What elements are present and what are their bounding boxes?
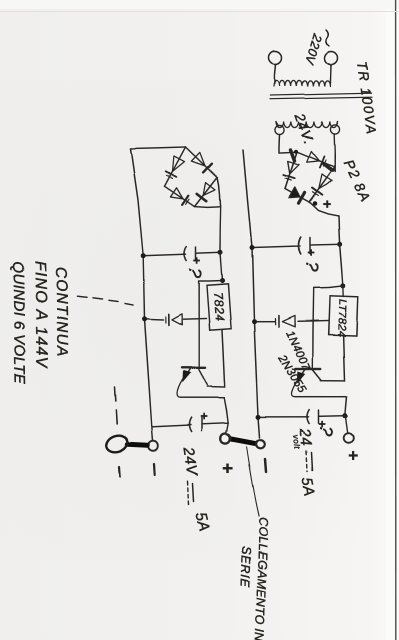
wire secondary lead to bottom terminal	[276, 122, 279, 127]
wire module 2 filter cap upper	[197, 251, 221, 254]
wire plus rail from regulator U1 to collector	[344, 336, 345, 382]
wire emitter rail up	[295, 396, 346, 398]
bridge B2 diamond edge S-E	[165, 186, 195, 206]
wire module 2 minus rail	[131, 149, 154, 442]
transistor Q1 emitter stroke	[298, 369, 306, 380]
jumper thick series link	[229, 439, 261, 445]
wire dashed continuation to next module	[115, 387, 118, 429]
wire module 2 plus rail segment 1	[219, 206, 222, 253]
wire minus rail module 1	[243, 150, 260, 438]
wire ground pin of U1 down	[298, 320, 329, 323]
diode D2 bridge P2 (N-E edge)	[319, 174, 332, 189]
node diode D10 minus rail junction	[142, 316, 147, 321]
wire bridge plus elbow	[309, 202, 339, 216]
svg-text:7824: 7824	[211, 291, 227, 322]
svg-text:+: +	[190, 257, 204, 265]
transistor Q1 emitter arrowhead	[297, 372, 304, 382]
bridge B2 diamond edge N-E	[195, 178, 218, 207]
wire base feed to Q1	[312, 288, 315, 368]
wire module 2 emitter rail up	[181, 397, 225, 399]
regulator U2 7824 box	[206, 283, 231, 330]
wire secondary lead to top terminal	[337, 122, 338, 126]
label DC symbol module 2 dashed	[188, 481, 189, 504]
capacitor C3 module 2 filter (plates)	[195, 247, 197, 260]
wire plus rail to regulator tap node	[340, 244, 343, 286]
svg-text:+: +	[319, 200, 335, 209]
svg-text:+: +	[218, 463, 238, 474]
svg-text:+: +	[304, 249, 318, 257]
diode D6 bridge B2 (W-N edge, apex to N)	[192, 152, 206, 166]
terminal output + module 1	[343, 433, 353, 443]
wire output plus rail	[345, 397, 347, 416]
terminal minus eyelet module 1	[256, 440, 265, 449]
wire dashed continuation from minus rail	[125, 304, 133, 306]
wire plus rail into regulator U1	[342, 286, 344, 297]
transformer TR core line 1	[270, 93, 372, 95]
wire output cap lower	[259, 416, 309, 418]
node output cap minus junction	[256, 414, 261, 419]
wire module 2 collector up	[207, 386, 225, 389]
svg-text:+: +	[197, 413, 211, 421]
capacitor C2 output (plates)	[318, 410, 320, 423]
wire module 2 base feed	[198, 281, 200, 367]
wire bridge B2 top corner to plus rail	[218, 178, 221, 206]
wire module 2 U2 ground pin down	[183, 318, 206, 321]
node diode D5 minus rail junction	[252, 319, 257, 324]
diode D10 module 2 (pointing to minus rail)	[171, 314, 181, 325]
paper crease line across top	[0, 11, 399, 13]
diode D7 bridge B2 (N-E edge)	[204, 183, 216, 196]
wire AC lead from secondary top terminal to bridge P2	[333, 134, 336, 172]
transformer TR secondary terminal circle (top)	[330, 125, 339, 134]
label DC symbol module 1 dashed	[306, 451, 307, 471]
transistor Q2 emitter stroke	[183, 368, 191, 379]
wire emitter Q1 hook	[291, 380, 297, 397]
svg-text:QUINDI 6 VOLTE: QUINDI 6 VOLTE	[9, 261, 28, 385]
jumper thick stub to external minus	[128, 445, 149, 446]
svg-text:5A: 5A	[298, 476, 318, 498]
wire module 2 emitter hook	[177, 379, 183, 398]
diode D9 bridge B2 (S-E edge)	[171, 188, 184, 199]
transistor Q2 collector stroke	[198, 368, 207, 385]
terminal minus module 2	[149, 441, 159, 451]
transformer TR primary terminal circle (220V left lead)	[269, 52, 282, 65]
terminal external minus ellipse	[104, 433, 130, 455]
node bridge P2 S-corner ink blob	[312, 201, 317, 206]
wire filter cap connection upper	[311, 243, 340, 246]
diode D4 bridge P2 (S-E edge, filled)	[289, 187, 300, 198]
wire output cap upper	[319, 415, 345, 418]
wire primary lead 1	[274, 65, 275, 85]
wire primary lead 2	[329, 65, 332, 85]
node module 2 filter cap minus junction	[141, 253, 146, 258]
diode D1 bridge P2 (W-N edge, apex to N, thick corner bar)	[307, 151, 320, 162]
wire filter cap connection lower	[253, 246, 301, 248]
wire module 2 output cap lower	[152, 425, 191, 427]
transformer TR primary winding	[274, 81, 331, 87]
regulator U1 LT7824 box	[329, 296, 359, 336]
wire module 2 output cap upper	[203, 423, 229, 424]
wire module 2 regulator tap down	[199, 279, 222, 282]
svg-text:CONTINUA: CONTINUA	[52, 267, 71, 358]
svg-text:volt: volt	[291, 434, 301, 450]
wire diode D5 to minus rail	[255, 321, 276, 323]
node filter cap plus junction	[337, 242, 342, 247]
node filter cap minus junction	[250, 245, 255, 250]
transistor Q1 collector stroke	[313, 369, 322, 380]
label - module 2 terminal	[153, 464, 156, 475]
diode D8 bridge B2 (W-S edge)	[173, 156, 185, 171]
wire plus rail to filter cap node	[339, 216, 340, 244]
bridge P2 diamond edge N-E	[309, 167, 335, 202]
svg-text:SERIE: SERIE	[238, 546, 253, 588]
wire to plus terminal	[345, 416, 347, 433]
label DC symbol module 2 solid	[193, 483, 194, 501]
node output cap plus junction	[342, 413, 347, 418]
bridge P2 diamond edge S-E	[285, 189, 309, 203]
svg-text:FINO A 144V: FINO A 144V	[31, 261, 50, 369]
leader line to series note	[247, 447, 260, 517]
transistor Q1 2N3055 base bar	[295, 368, 320, 370]
capacitor C4 module 2 output (plates)	[201, 418, 203, 431]
wire module 2 output plus rail	[224, 398, 228, 424]
bridge B2 diamond edge W-S	[165, 147, 186, 186]
wire AC lead from secondary bottom terminal to bridge P2	[279, 135, 297, 153]
label DC symbol module 1 solid	[311, 452, 312, 470]
capacitor C1 filter (plates)	[309, 238, 311, 254]
label - external terminal	[118, 467, 121, 477]
diode D5 1N4007 (pointing to minus rail)	[282, 316, 295, 327]
label 220V tilde squiggle	[326, 30, 329, 46]
svg-text:+: +	[343, 450, 362, 460]
node regulator tap junction	[340, 283, 345, 288]
wire collector Q1 up to plus rail	[321, 380, 345, 382]
svg-text:LT7824: LT7824	[335, 299, 348, 337]
wire module 2 to plus eyelet	[226, 423, 228, 434]
wire regulator tap down	[314, 286, 343, 288]
wire module 2 plus rail from regulator to collector	[222, 330, 225, 387]
transistor Q2 emitter arrowhead	[183, 371, 190, 381]
diode D3 bridge P2 (N-W edge: thick bar near N then diode to W)	[291, 150, 295, 161]
transformer TR secondary terminal circle (bottom)	[275, 125, 284, 134]
wire module 2 filter cap lower	[144, 254, 186, 256]
terminal plus eyelet module 2	[221, 434, 231, 444]
page edge line at right	[395, 0, 397, 640]
bridge P2 diamond edge W-S	[285, 152, 297, 189]
wire bridge B2 right corner stub	[195, 206, 220, 209]
node module 2 regulator tap junction	[220, 278, 225, 283]
node module 2 filter cap plus junction	[218, 250, 223, 255]
label - output module 1	[265, 459, 266, 472]
wire module 2 top-left drop	[131, 147, 187, 149]
transformer TR core line 2	[270, 97, 372, 99]
bridge P2 diamond edge N-W	[297, 152, 335, 167]
bridge B2 diamond edge N-W	[186, 147, 218, 178]
node bridge P2 N-corner ink blob	[294, 149, 298, 153]
transformer TR primary terminal circle (220V right lead)	[325, 52, 338, 65]
transistor Q2 2N3055 base bar	[182, 367, 206, 369]
wire diode D10 to minus rail	[145, 318, 163, 321]
transformer TR secondary winding	[276, 122, 338, 128]
wire module 2 plus rail segment 2	[220, 252, 222, 280]
